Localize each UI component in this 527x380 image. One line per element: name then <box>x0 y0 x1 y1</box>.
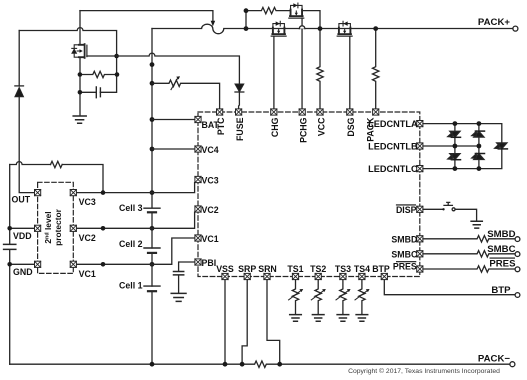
ground (Q1 source RC) <box>73 116 86 123</box>
svg-text:CHG: CHG <box>270 117 280 137</box>
thermistor TH5 (TS4) <box>359 280 365 315</box>
wire: DISP to switch <box>423 208 443 210</box>
svg-text:FUSE: FUSE <box>235 117 245 141</box>
LED LED4 <box>472 154 485 160</box>
pin VC1 <box>195 235 201 241</box>
node dots Q1 network <box>78 54 120 95</box>
svg-text:PTC: PTC <box>216 117 226 135</box>
thermistor TH3 (TS2) <box>315 280 321 315</box>
pin PTC <box>217 109 223 115</box>
svg-text:PACK+: PACK+ <box>478 17 510 28</box>
wire: BTP to terminal <box>384 280 515 295</box>
svg-text:VDD: VDD <box>13 231 32 241</box>
svg-text:Cell 3: Cell 3 <box>119 203 143 213</box>
wire: switch to ground <box>455 209 477 221</box>
svg-text:DSG: DSG <box>346 117 356 136</box>
ground (TS1) <box>290 315 302 322</box>
capacitor C3 (2nd level VDD) <box>4 244 16 249</box>
svg-text:SMBC: SMBC <box>391 249 418 259</box>
svg-text:VC1: VC1 <box>202 234 219 244</box>
svg-text:TS1: TS1 <box>287 264 303 274</box>
battery- bottom rail with sense resistor RS <box>10 361 510 367</box>
wire: BAT pin to bus <box>152 119 195 121</box>
pin VC2 <box>195 206 201 212</box>
node dots (left rail + protector rows) <box>7 190 105 266</box>
ground (TS4) <box>356 315 368 322</box>
svg-text:LEDCNTLA: LEDCNTLA <box>368 119 418 129</box>
transistor Q4 (DSG P-FET) <box>339 24 351 28</box>
resistor R1 (gate-source) <box>80 71 117 77</box>
wire: Q1 drain vertical from wire A down to Q1 <box>79 11 81 45</box>
diode D2 (to FUSE pin) <box>235 84 244 92</box>
pin PBI <box>195 259 201 265</box>
svg-text:VC3: VC3 <box>79 197 96 207</box>
svg-text:DISP: DISP <box>396 205 417 215</box>
node dots LED matrix <box>453 121 482 171</box>
thermistor TH2 (TS1) <box>292 280 298 315</box>
SMBC terminal <box>515 252 520 257</box>
chemical fuse F1 with blow element <box>152 24 513 33</box>
wire+resistor R8: PRES row <box>423 266 515 272</box>
svg-text:PACK−: PACK− <box>478 354 510 365</box>
wire: LEDCNTLC row <box>423 149 502 169</box>
capacitor C1 (gate-source) <box>80 91 100 93</box>
node: bus corner down from fuse <box>151 29 153 208</box>
SMBD terminal <box>515 237 520 242</box>
wire: VDD pin wire <box>10 227 35 229</box>
BAT+ bus junction dots <box>150 62 155 266</box>
wire: VDD rail vertical (left) <box>9 165 11 365</box>
2nd level protector dashed box U2 <box>38 182 74 273</box>
wire+resistor R4: VCC branch from rail <box>317 29 323 109</box>
pin PACK <box>373 109 379 115</box>
svg-text:2nd level: 2nd level <box>43 211 53 243</box>
transistor Q3 (PCHG P-FET) <box>291 5 303 9</box>
pin TS4 <box>359 273 365 279</box>
battery Cell 2 <box>144 247 160 249</box>
pin TS3 <box>340 273 346 279</box>
ground (TS3) <box>337 315 349 322</box>
svg-text:VC1: VC1 <box>79 269 96 279</box>
BTP terminal <box>515 293 520 298</box>
node dots on PACK+ rail <box>244 8 379 31</box>
wire: SRP jog to sense resistor left <box>242 280 247 364</box>
pin VC2 (U2) <box>70 225 76 231</box>
svg-text:BTP: BTP <box>372 264 390 274</box>
PACK+ terminal <box>513 26 518 31</box>
wire+resistor R5: PACK pin branch from rail <box>373 29 379 109</box>
pin VC4 <box>195 146 201 152</box>
wire: VDD rail y=164.5 with hop over OUT wire <box>10 162 51 165</box>
wire: LEDCNTLB row <box>423 145 479 147</box>
wire: VSS to battery- rail <box>224 280 226 364</box>
wire: protector VC1 to bus <box>77 263 153 265</box>
pin VC3 (U2) <box>70 190 76 196</box>
pin FUSE <box>236 109 242 115</box>
battery Cell 1 <box>144 285 160 287</box>
pin SRN <box>264 273 270 279</box>
thermistor TH1 (PTC to PTC pin) <box>152 80 220 109</box>
wire: VC2 jog from bus <box>152 212 195 228</box>
capacitor C2 (PBI) <box>174 272 184 275</box>
ground (DISP switch) <box>471 221 482 228</box>
svg-text:VC3: VC3 <box>202 175 219 185</box>
pin PRES <box>417 266 423 272</box>
wire+resistor R7: SMBC pull-up row <box>423 251 515 257</box>
fuse blow arrowhead onto chemical fuse <box>211 21 216 26</box>
pin TS2 <box>315 273 321 279</box>
PACK- terminal <box>510 362 515 367</box>
pin BTP <box>381 273 387 279</box>
resistor R2 (VDD feed) <box>51 161 63 167</box>
svg-text:Cell 1: Cell 1 <box>119 281 143 291</box>
svg-text:SMBC: SMBC <box>487 244 515 255</box>
pin VDD (U2) <box>35 225 41 231</box>
svg-text:TS3: TS3 <box>335 264 351 274</box>
svg-text:VC4: VC4 <box>202 145 219 155</box>
svg-text:PRES: PRES <box>393 261 417 271</box>
wire: protector VC3 to bus <box>77 192 153 194</box>
wire: PCHG top branch <box>245 11 247 29</box>
svg-text:SRN: SRN <box>258 264 277 274</box>
pin VCC <box>317 109 323 115</box>
wire: VC4 pin to bus <box>152 148 195 150</box>
diode D1 vertical wire (2nd-level OUT to gate node) <box>19 31 34 193</box>
svg-text:VC2: VC2 <box>79 233 96 243</box>
svg-text:BTP: BTP <box>491 285 511 296</box>
LED LED3 <box>472 131 485 137</box>
LED LED1 <box>448 131 461 137</box>
svg-text:protector: protector <box>53 208 63 246</box>
IC U1 dashed box (bq40z50) <box>198 112 420 277</box>
LED LED5 (right branch) <box>495 143 508 149</box>
wire: SRN jog to sense resistor right <box>267 280 280 364</box>
pin DISP <box>417 206 423 212</box>
svg-text:VC2: VC2 <box>202 205 219 215</box>
wire: LED column 1 <box>454 124 456 169</box>
switch S1 (pushbutton) <box>442 208 444 210</box>
wire: CHG gate lead down to CHG pin <box>273 36 275 109</box>
wire: DSG gate lead down to DSG pin <box>349 36 351 109</box>
battery Cell 3 <box>144 207 160 209</box>
svg-text:TS4: TS4 <box>354 264 370 274</box>
diode D1 <box>15 85 24 87</box>
LED LED2 <box>448 154 461 160</box>
pin SMBD <box>417 236 423 242</box>
transistor Q1 (fuse-blow P-FET, vertical) <box>74 45 79 57</box>
resistor R3 (precharge) <box>246 7 291 13</box>
pin VSS <box>222 273 228 279</box>
pin TS1 <box>292 273 298 279</box>
wire: Q1 gate lead to node at x=116.6 <box>87 55 117 57</box>
svg-text:SMBD: SMBD <box>391 234 417 244</box>
wire: GND pin wire <box>10 263 35 265</box>
pin LEDCNTLA <box>417 121 423 127</box>
pin DSG <box>347 109 353 115</box>
svg-text:VCC: VCC <box>316 117 326 136</box>
pin CHG <box>271 109 277 115</box>
wire: R2 to VC3 cell-top node <box>62 165 103 193</box>
svg-text:OUT: OUT <box>12 195 31 205</box>
svg-text:LEDCNTLB: LEDCNTLB <box>368 141 418 151</box>
pin LEDCNTLC <box>417 166 423 172</box>
pin OUT (U2) <box>35 190 41 196</box>
svg-text:VSS: VSS <box>216 264 234 274</box>
svg-text:SRP: SRP <box>238 264 256 274</box>
transistor Q2 (CHG P-FET) <box>273 24 285 28</box>
hop: rail over PCHG gate <box>299 26 305 29</box>
wire: gate node to FUSE pin diode, hop over bus <box>117 53 240 84</box>
wire+resistor R6: SMBD pull-up row <box>423 236 515 242</box>
thermistor TH4 (TS3) <box>340 280 346 315</box>
wire: PCHG FET out to rail <box>302 11 320 29</box>
pin VC3 <box>195 176 201 182</box>
pin SRP <box>244 273 250 279</box>
ground (PBI cap) <box>171 293 186 301</box>
pin LEDCNTLB <box>417 143 423 149</box>
svg-text:Copyright © 2017, Texas Instru: Copyright © 2017, Texas Instruments Inco… <box>348 367 500 375</box>
svg-text:TS2: TS2 <box>310 264 326 274</box>
svg-text:Cell 2: Cell 2 <box>119 239 143 249</box>
pin SMBC <box>417 251 423 257</box>
svg-text:PCHG: PCHG <box>299 117 309 143</box>
svg-text:SMBD: SMBD <box>487 229 515 240</box>
pin BAT <box>195 116 201 122</box>
svg-text:PBI: PBI <box>202 258 217 268</box>
wire: top fuse-blow wire A from Q1 drain to fuse arrow <box>80 11 213 22</box>
wire: PBI pin to filter cap <box>179 262 195 271</box>
svg-text:PRES: PRES <box>489 259 516 270</box>
wire: LED column 2 <box>478 124 480 169</box>
pin VC1 (U2) <box>70 261 76 267</box>
wire B: gate/protector wire y=30.5 with hop over Q1 drain <box>19 28 116 93</box>
pin PCHG <box>299 109 305 115</box>
wire: Q1 source down to ground through resistor/cap rows <box>79 57 81 115</box>
wire: VC1 jog from bus <box>152 238 195 264</box>
wire: PCHG gate lead down to PCHG pin <box>301 18 303 109</box>
pin GND (U2) <box>35 261 41 267</box>
wire: protector VC2 to bus <box>77 227 153 229</box>
svg-text:GND: GND <box>13 267 33 277</box>
PRES terminal <box>515 267 520 272</box>
wire: LEDCNTLA row <box>423 124 502 143</box>
ground (TS2) <box>312 315 324 322</box>
node dots bottom rail <box>150 362 283 367</box>
wire: VC3 jog from bus <box>152 183 195 193</box>
svg-text:LEDCNTLC: LEDCNTLC <box>368 164 418 174</box>
